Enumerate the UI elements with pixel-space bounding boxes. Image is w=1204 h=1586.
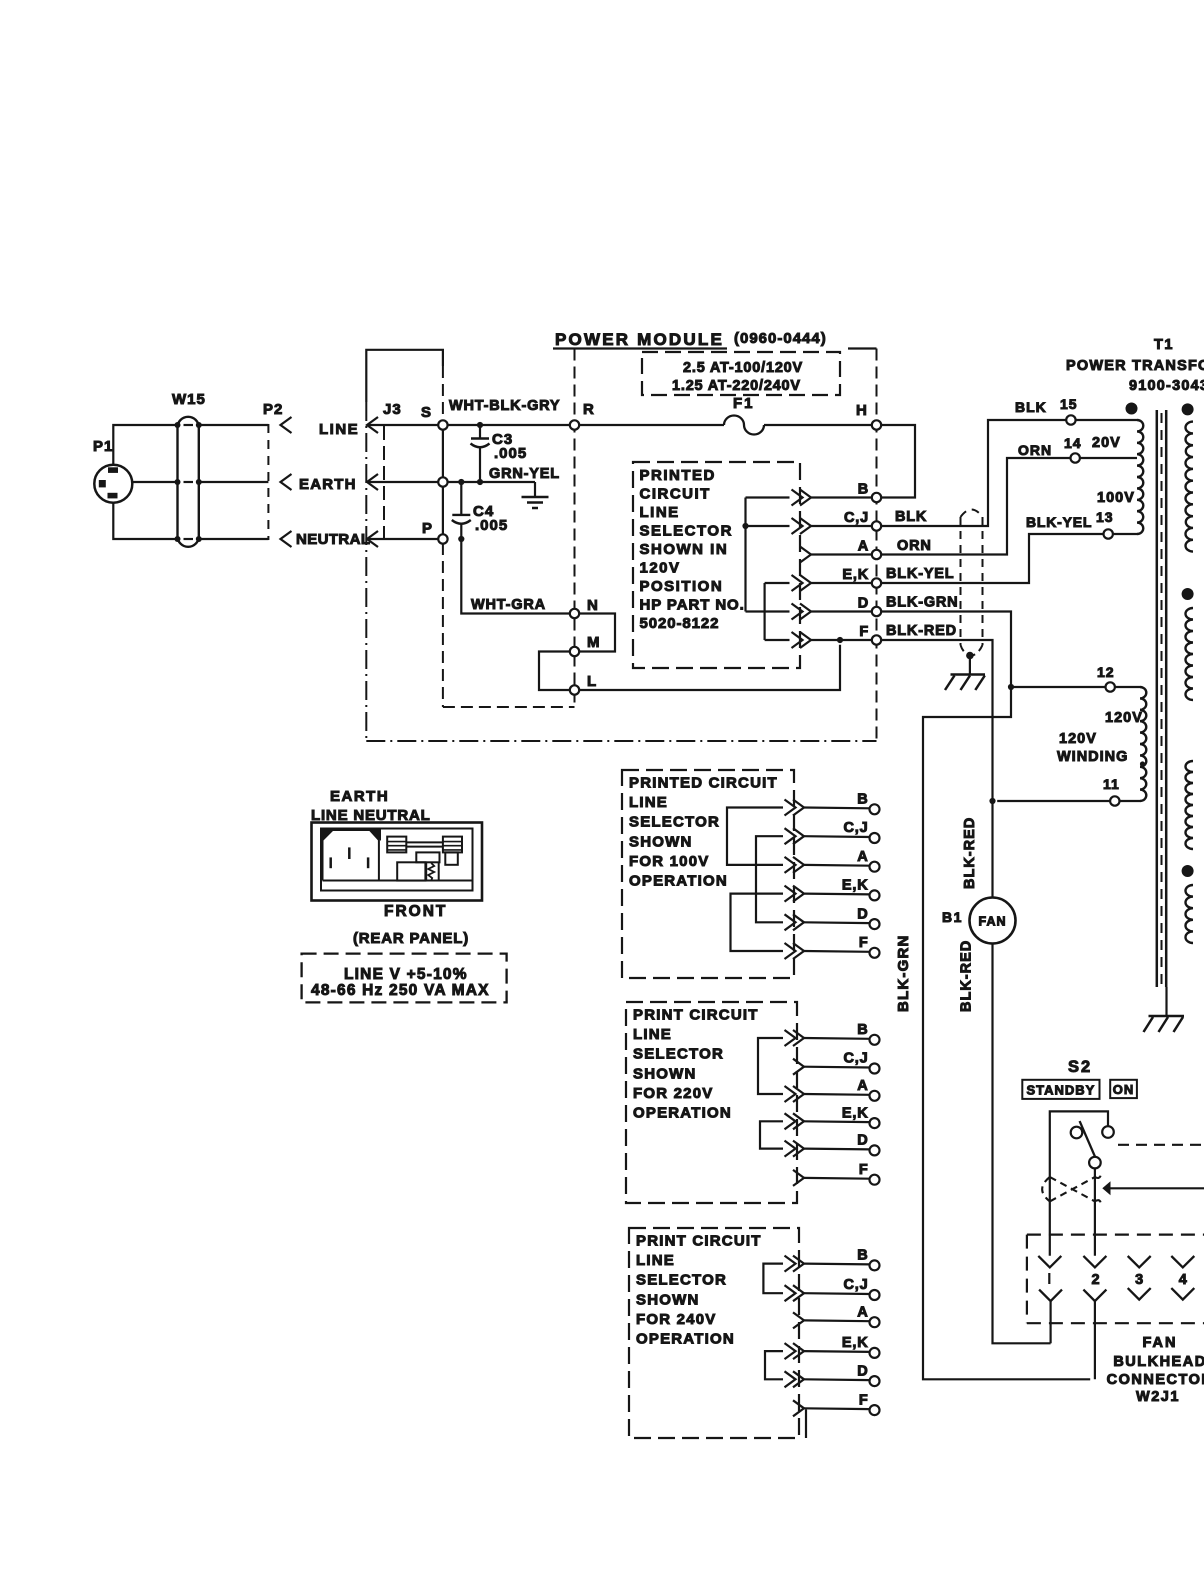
contact chevron row D <box>793 1371 804 1387</box>
power module title underline <box>553 347 727 349</box>
IEC inlet corner fill left <box>321 829 334 842</box>
W2 cable boundary right of J3 (dashed) <box>442 366 444 420</box>
terminal 11 <box>1110 796 1119 805</box>
rear panel outer rectangle <box>312 823 483 901</box>
junction dot C4 bottom on neutral wire <box>458 536 464 542</box>
wire switch common down to bulkhead pin2 <box>1094 1168 1096 1255</box>
switch S2 contact STANDBY <box>1071 1127 1083 1139</box>
svg-text:C,J: C,J <box>844 510 869 526</box>
terminal 13 <box>1104 529 1113 538</box>
junction dot C4 top on earth wire <box>458 479 464 485</box>
terminal 14 <box>1071 453 1080 462</box>
contact chevron row F <box>793 943 804 959</box>
svg-text:SHOWN: SHOWN <box>629 833 693 850</box>
switch S2 common contact <box>1089 1157 1101 1169</box>
tail wire C,J row <box>746 525 790 527</box>
secondary winding segment 4 <box>1186 885 1194 943</box>
tail wire F row <box>765 639 790 641</box>
node L <box>570 685 579 694</box>
wire chevron to terminal B <box>804 1262 870 1265</box>
fuse holder rect B <box>443 837 462 853</box>
svg-text:B: B <box>858 482 869 498</box>
core ground stem <box>1165 987 1167 1016</box>
junction dot C3 on earth wire <box>477 479 483 485</box>
terminal circle E,K <box>870 1118 880 1128</box>
tail wire D row <box>746 610 790 612</box>
J3 contact line arrow <box>367 417 378 433</box>
selector box 120V position (dashed) <box>633 462 800 668</box>
wire chevron to terminal F <box>811 639 872 641</box>
junction dot BLK-GRN at 12 <box>1008 684 1014 690</box>
shield ground stem <box>969 657 971 675</box>
svg-text:5020-8122: 5020-8122 <box>640 615 720 632</box>
tail wire E,K row <box>765 582 790 584</box>
svg-text:FAN: FAN <box>1143 1335 1178 1351</box>
chassis boundary left dash-dot <box>365 402 367 741</box>
svg-text:13: 13 <box>1096 509 1114 525</box>
node P <box>438 534 447 543</box>
svg-text:EARTH: EARTH <box>299 476 357 493</box>
wire EARTH J3 to node <box>367 481 438 483</box>
svg-text:R: R <box>583 401 595 418</box>
svg-text:B: B <box>857 1022 868 1038</box>
rear panel inner rectangle <box>321 829 473 891</box>
wire 13 to winding <box>1113 533 1137 535</box>
jumper M to L <box>539 652 570 691</box>
svg-text:PRINTED: PRINTED <box>640 467 716 484</box>
svg-text:P1: P1 <box>93 438 113 455</box>
fuse holder rect C <box>445 852 458 864</box>
pin 1 mating contact <box>1039 1290 1062 1302</box>
wire chevron to terminal A <box>804 864 870 867</box>
terminal circle C,J <box>870 833 880 843</box>
node H <box>872 420 881 429</box>
svg-text:LINE V +5-10%: LINE V +5-10% <box>344 966 468 983</box>
node N <box>570 609 579 618</box>
winding tap dot <box>1140 761 1145 766</box>
svg-text:SELECTOR: SELECTOR <box>636 1272 727 1289</box>
wire chevron to terminal D <box>804 1147 870 1150</box>
svg-text:A: A <box>857 849 868 865</box>
rear panel bottom strip <box>323 880 473 882</box>
terminal circle F <box>870 1405 880 1415</box>
terminal circle C,J <box>870 1064 880 1074</box>
contact chevron row D <box>793 914 804 930</box>
svg-text:WHT-BLK-GRY: WHT-BLK-GRY <box>449 398 560 414</box>
chassis boundary top-left box <box>366 350 443 402</box>
wire W15 line to P2 <box>199 424 269 426</box>
J3 contact neutral arrow <box>367 531 378 547</box>
plug contact chevron row E,K <box>800 575 811 591</box>
svg-text:F: F <box>859 935 869 951</box>
contact chevron row B <box>793 800 804 816</box>
polarity dot secondary 2 <box>1182 588 1194 600</box>
svg-text:CONNECTOR: CONNECTOR <box>1107 1372 1204 1388</box>
terminal A on power module <box>872 550 881 559</box>
contact chevron row F <box>793 1400 804 1416</box>
J3 contact earth arrow <box>367 474 378 490</box>
svg-text:D: D <box>857 906 868 922</box>
junction dot on F row from L <box>837 637 843 643</box>
wire 11 to winding <box>1120 800 1141 802</box>
transformer core <box>1157 410 1166 987</box>
svg-text:M: M <box>587 634 601 651</box>
svg-text:SHOWN IN: SHOWN IN <box>640 541 729 558</box>
wire chevron to terminal E,K <box>811 582 872 584</box>
wire S down to earth node <box>442 430 444 478</box>
svg-text:ORN: ORN <box>1018 442 1052 458</box>
svg-text:S2: S2 <box>1068 1058 1092 1076</box>
capacitor C3 junction dot on line wire <box>477 422 483 428</box>
svg-text:B1: B1 <box>942 909 963 925</box>
cable W15 <box>175 417 202 547</box>
chassis ground symbol below shield <box>945 675 985 691</box>
capacitor C3 <box>471 425 490 482</box>
svg-text:NEUTRAL: NEUTRAL <box>296 531 370 548</box>
terminal circle A <box>870 862 880 872</box>
svg-text:FOR 220V: FOR 220V <box>633 1085 713 1102</box>
power module left boundary dashed with R N M L <box>574 349 576 708</box>
svg-text:OPERATION: OPERATION <box>636 1331 735 1348</box>
contact chevron row A <box>793 1086 804 1102</box>
switch S2 dashed wire to right <box>1118 1144 1204 1146</box>
svg-text:E,K: E,K <box>842 878 869 894</box>
wire BLK-GRN down to bulkhead pin2 <box>923 687 1090 1379</box>
svg-text:LINE: LINE <box>640 504 680 521</box>
svg-text:F1: F1 <box>733 395 755 412</box>
wire chevron to terminal A <box>811 553 872 555</box>
terminal circle D <box>870 919 880 929</box>
svg-text:SELECTOR: SELECTOR <box>629 814 720 831</box>
wire A to terminal 14 (ORN) <box>881 458 1070 555</box>
power module top edge segment <box>848 347 877 349</box>
terminal E,K on power module <box>872 578 881 587</box>
svg-text:100V: 100V <box>1097 490 1135 506</box>
terminal circle B <box>870 1035 880 1045</box>
line rating dashed box <box>302 954 507 1003</box>
svg-text:F: F <box>859 1392 869 1408</box>
pin 2 mating stem <box>1094 1301 1096 1379</box>
svg-text:FOR 100V: FOR 100V <box>629 853 709 870</box>
svg-text:D: D <box>857 1363 868 1379</box>
svg-text:.005: .005 <box>494 445 527 462</box>
ON label box <box>1110 1080 1137 1098</box>
switch S2 contact ON <box>1102 1126 1114 1138</box>
svg-text:FOR 240V: FOR 240V <box>636 1311 716 1328</box>
wire NEUTRAL J3 to P <box>367 538 438 540</box>
fan motor B1 <box>970 898 1016 944</box>
bulkhead connector W2J1 dashed box <box>1027 1235 1204 1324</box>
contact chevron row A <box>793 857 804 873</box>
connector J3 boundary <box>383 426 385 540</box>
terminal circle B <box>870 1260 880 1270</box>
wire chevron to terminal F <box>804 1177 870 1180</box>
svg-text:11: 11 <box>1103 776 1120 792</box>
pin 1 number <box>1048 1273 1050 1284</box>
wire chevron to terminal F <box>804 1407 870 1410</box>
svg-text:N: N <box>587 597 599 614</box>
plug contact chevron row F <box>800 632 811 648</box>
svg-text:A: A <box>858 539 869 555</box>
contact chevron row E,K <box>793 1343 804 1359</box>
fuse F1 element <box>724 416 764 435</box>
plug contact chevron row B <box>800 490 811 506</box>
jumper N to M <box>579 614 615 652</box>
wire D to junction (BLK-GRN) <box>881 612 1011 688</box>
terminal circle F <box>870 1175 880 1185</box>
wire earth node down to P <box>442 487 444 535</box>
svg-text:BLK-YEL: BLK-YEL <box>886 566 954 582</box>
pin 4 mating contact <box>1171 1288 1194 1300</box>
wire chevron to terminal B <box>811 496 872 498</box>
svg-text:STANDBY: STANDBY <box>1026 1082 1095 1097</box>
junction dot 11 on fan wire <box>989 798 995 804</box>
wire chevron to terminal D <box>804 1378 870 1381</box>
chassis ground at core <box>1144 1016 1185 1032</box>
wire F to fan (BLK-RED) <box>881 640 992 898</box>
contact chevron row C,J <box>793 1059 804 1075</box>
IEC pin center <box>348 847 351 859</box>
terminal circle E,K <box>870 1348 880 1358</box>
selector box shown for 240V operation (dashed) <box>629 1228 799 1438</box>
switch S2 top wire <box>1050 1111 1108 1255</box>
svg-text:E,K: E,K <box>842 567 869 583</box>
pin 1 mating stem <box>1049 1301 1051 1343</box>
wire fan to bulkhead pin1 <box>993 944 1051 1344</box>
node S <box>438 420 447 429</box>
svg-text:LINE: LINE <box>629 794 668 811</box>
wire chevron to terminal E,K <box>804 1350 870 1353</box>
svg-text:GRN-YEL: GRN-YEL <box>489 466 560 482</box>
terminal circle A <box>870 1091 880 1101</box>
terminal F on power module <box>872 635 881 644</box>
jumper B-A 220V box <box>758 1038 783 1094</box>
polarity dot primary top <box>1126 403 1138 415</box>
terminal circle C,J <box>870 1290 880 1300</box>
wire 15 to winding <box>1076 419 1137 421</box>
wire junction to terminal 12 <box>1011 686 1106 688</box>
power module right boundary dashed <box>876 349 878 742</box>
wire P1 earth to W15 <box>132 481 177 483</box>
svg-text:BLK: BLK <box>1015 399 1047 415</box>
svg-text:L: L <box>587 673 597 690</box>
wire fuse to H <box>764 424 872 426</box>
svg-text:B: B <box>857 1248 868 1264</box>
jumper EK-F vertical <box>763 583 765 640</box>
svg-text:120V: 120V <box>640 560 681 577</box>
svg-text:D: D <box>858 596 869 612</box>
pin 2 mating contact <box>1083 1290 1106 1302</box>
jumper CJ-D 100V box <box>756 836 783 922</box>
contact chevron row C,J <box>793 1285 804 1301</box>
terminal circle A <box>870 1317 880 1327</box>
svg-text:LINE: LINE <box>636 1252 675 1269</box>
jumper B-A 100V box <box>727 808 783 865</box>
terminal circle E,K <box>870 890 880 900</box>
svg-text:E,K: E,K <box>842 1335 869 1351</box>
svg-text:SHOWN: SHOWN <box>633 1065 697 1082</box>
svg-text:9100-3043: 9100-3043 <box>1129 378 1204 394</box>
contact chevron row D <box>793 1141 804 1157</box>
wire C,J to terminal 15 (BLK) <box>881 420 1066 526</box>
wire chevron to terminal C,J <box>804 1066 870 1069</box>
wire 14 tap to winding <box>1080 457 1137 459</box>
svg-text:C,J: C,J <box>844 820 869 836</box>
wire P1 line to W15 <box>113 425 177 465</box>
IEC inlet corner fill right <box>369 829 381 842</box>
pin 2 arrow <box>1083 1256 1106 1268</box>
capacitor C4 <box>452 482 471 539</box>
wire chevron to terminal F <box>804 950 870 953</box>
terminal circle B <box>870 804 880 814</box>
contact chevron row F <box>793 1170 804 1186</box>
jumper EK-D 220V box <box>760 1121 783 1148</box>
jumper H to B <box>881 425 915 498</box>
contact chevron row C,J <box>793 828 804 844</box>
fuse holder rect D <box>416 852 439 862</box>
wire W15 earth to P2 <box>199 481 269 483</box>
pin 3 contact <box>1128 1256 1151 1267</box>
terminal circle F <box>870 948 880 958</box>
svg-text:SELECTOR: SELECTOR <box>633 1046 724 1063</box>
terminal B on power module <box>872 493 881 502</box>
svg-text:C,J: C,J <box>844 1051 869 1067</box>
earth ground symbol <box>522 482 549 508</box>
selector box shown for 220V operation (dashed) <box>626 1002 797 1203</box>
svg-text:POWER MODULE: POWER MODULE <box>555 330 724 349</box>
wire chevron to terminal D <box>804 921 870 924</box>
wire L to F-row junction <box>579 645 840 690</box>
wire chevron to terminal A <box>804 1319 870 1322</box>
stub F row 240V box to box edge <box>805 1410 807 1439</box>
contact chevron row B <box>793 1256 804 1272</box>
plug P1 <box>94 465 132 503</box>
contact chevron row A <box>793 1312 804 1328</box>
fuse holder rect E <box>397 862 425 880</box>
svg-text:POSITION: POSITION <box>640 578 724 595</box>
W2 cable boundary bottom dashed <box>443 706 575 708</box>
svg-text:T1: T1 <box>1154 337 1174 353</box>
svg-text:E,K: E,K <box>842 1105 869 1121</box>
secondary winding segment 3 <box>1186 761 1193 849</box>
shield ground dot <box>966 652 974 660</box>
wire 12 to winding <box>1115 686 1140 688</box>
svg-text:WHT-GRA: WHT-GRA <box>471 597 546 613</box>
wire LINE J3 to S <box>367 424 438 426</box>
svg-text:.005: .005 <box>475 517 508 534</box>
svg-text:120V: 120V <box>1105 710 1143 726</box>
wire chevron to terminal B <box>804 1037 870 1040</box>
terminal C,J on power module <box>872 521 881 530</box>
plug contact chevron row D <box>800 604 811 620</box>
terminal 12 <box>1106 682 1115 691</box>
svg-text:20V: 20V <box>1092 435 1121 451</box>
svg-text:FRONT: FRONT <box>384 903 447 920</box>
svg-text:ORN: ORN <box>897 538 932 554</box>
wire chevron to terminal E,K <box>804 892 870 895</box>
jumper B-CJ-D vertical <box>744 498 746 612</box>
fuse holder bars <box>406 841 443 843</box>
terminal circle D <box>870 1145 880 1155</box>
wire W15 neutral to P2 <box>199 538 269 540</box>
wire chevron to terminal A <box>804 1093 870 1096</box>
wire earth node to ground corner <box>448 481 535 483</box>
wire chevron to terminal C,J <box>804 1292 870 1295</box>
svg-text:4: 4 <box>1179 1272 1187 1288</box>
svg-text:P: P <box>422 520 433 537</box>
svg-text:W2J1: W2J1 <box>1136 1389 1180 1405</box>
connector P2 boundary <box>267 424 269 540</box>
svg-text:HP PART NO.: HP PART NO. <box>640 597 745 614</box>
wire chevron to terminal E,K <box>804 1120 870 1123</box>
fuse F1 rating box <box>642 352 840 395</box>
svg-text:SHOWN: SHOWN <box>636 1291 700 1308</box>
polarity dot secondary 4 <box>1182 865 1194 877</box>
chassis boundary bottom dash-dot <box>366 740 876 742</box>
fuse holder rect A <box>387 837 406 853</box>
wire 11 to BLK-RED junction <box>997 800 1110 802</box>
svg-text:BLK-RED: BLK-RED <box>886 623 957 639</box>
fuse element in holder <box>426 862 439 880</box>
svg-text:A: A <box>857 1078 868 1094</box>
wire P1 neutral to W15 <box>113 503 177 539</box>
jumper B-CJ 240V box <box>763 1264 783 1294</box>
wire chevron to terminal C,J <box>811 525 872 527</box>
cable shield loop around transformer wires <box>961 510 983 656</box>
P2 contact line <box>281 417 292 433</box>
wire S to R (WHT-BLK-GRY) <box>448 424 570 426</box>
wire E,K to terminal 13 (BLK-YEL) <box>881 534 1103 583</box>
svg-text:1.25 AT-220/240V: 1.25 AT-220/240V <box>672 378 801 394</box>
plug contact chevron row C,J <box>800 518 811 534</box>
tail wire B row <box>746 496 790 498</box>
svg-text:OPERATION: OPERATION <box>633 1105 732 1122</box>
P2 contact earth <box>281 474 292 490</box>
terminal D on power module <box>872 607 881 616</box>
contact chevron row E,K <box>793 886 804 902</box>
svg-text:ON: ON <box>1113 1082 1135 1097</box>
svg-text:B: B <box>857 792 868 808</box>
jumper EK-D 240V box <box>765 1351 783 1379</box>
primary winding 15-13 <box>1137 420 1143 534</box>
svg-text:CIRCUIT: CIRCUIT <box>640 486 711 503</box>
svg-text:D: D <box>857 1133 868 1149</box>
arrowhead to transformer <box>1102 1181 1110 1195</box>
terminal circle D <box>870 1376 880 1386</box>
pin 1 arrow <box>1038 1256 1061 1268</box>
STANDBY label box <box>1022 1080 1099 1099</box>
contact chevron row B <box>793 1030 804 1046</box>
svg-text:(0960-0444): (0960-0444) <box>734 330 827 347</box>
wire neutral to N (WHT-GRA) <box>461 539 570 614</box>
svg-text:BLK-RED: BLK-RED <box>959 940 975 1012</box>
node R <box>570 420 579 429</box>
IEC pin right <box>367 857 370 868</box>
twisted pair symbol <box>1042 1174 1101 1204</box>
contact chevron row E,K <box>793 1113 804 1129</box>
svg-text:2.5 AT-100/120V: 2.5 AT-100/120V <box>683 360 803 376</box>
svg-text:PRINTED CIRCUIT: PRINTED CIRCUIT <box>629 775 778 792</box>
pin 4 contact <box>1171 1256 1194 1267</box>
svg-text:J3: J3 <box>383 401 402 418</box>
svg-text:LINE: LINE <box>319 421 359 438</box>
svg-text:POWER TRANSFORMER: POWER TRANSFORMER <box>1066 358 1204 374</box>
svg-text:120V: 120V <box>1059 731 1097 747</box>
svg-text:48-66 Hz 250 VA MAX: 48-66 Hz 250 VA MAX <box>311 982 490 999</box>
svg-text:BLK-YEL: BLK-YEL <box>1026 514 1092 530</box>
svg-text:LINE: LINE <box>633 1026 672 1043</box>
svg-text:BLK-GRN: BLK-GRN <box>886 595 958 611</box>
